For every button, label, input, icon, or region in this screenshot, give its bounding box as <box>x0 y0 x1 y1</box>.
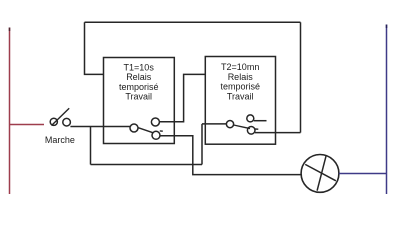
wire: top supply run <box>85 21 301 23</box>
svg-text:Relais: Relais <box>126 72 152 82</box>
wire: bottom run to T2 feed <box>91 164 203 166</box>
switch S1 blade <box>52 108 70 125</box>
lamp E1 cross stroke 1 <box>305 164 336 180</box>
wire: T2 NC stub <box>254 120 267 122</box>
wire: drop to relay T1 coil <box>85 22 104 74</box>
contact T1 blade tip <box>160 130 163 132</box>
wire: T1 NC to relay T2 coil <box>159 74 205 121</box>
lamp E1 body <box>301 155 339 193</box>
wire: neutral tip <box>386 25 388 29</box>
relay box T2 <box>205 57 275 145</box>
svg-text:Travail: Travail <box>227 91 254 101</box>
lamp E1 cross stroke 2 <box>317 155 326 191</box>
wire: feed contact T2 <box>202 123 226 125</box>
wire: up to contact T2 <box>201 124 203 165</box>
svg-text:Travail: Travail <box>125 92 152 102</box>
svg-text:Marche: Marche <box>45 135 75 145</box>
switch S1 "Marche" terminal right <box>63 118 71 126</box>
wire: drop to contact T2 common <box>300 22 302 132</box>
wire: phase L (red) vertical <box>9 28 11 195</box>
contact T1 blade <box>138 128 153 133</box>
contact T1 common terminal <box>130 124 138 132</box>
svg-text:Relais: Relais <box>228 72 254 82</box>
wire: neutral N (blue) vertical <box>386 25 388 195</box>
wire: lamp to neutral (blue) <box>339 173 387 175</box>
contact T2 common terminal <box>226 121 233 128</box>
wire: branch down at node <box>90 127 92 165</box>
switch S1 "Marche" terminal left <box>50 118 57 125</box>
wire: phase tip <box>9 28 11 32</box>
svg-text:T1=10s: T1=10s <box>124 63 155 73</box>
contact T1 NO terminal <box>152 131 160 139</box>
wire: switch to contact T1 <box>70 126 130 128</box>
svg-text:temporisé: temporisé <box>119 82 159 92</box>
wire: T1 NO to lamp <box>160 136 301 175</box>
svg-text:temporisé: temporisé <box>220 82 260 92</box>
contact T1 NC terminal <box>151 118 159 126</box>
wire: T2 NO to supply drop <box>255 132 301 134</box>
contact T2 blade tip <box>255 128 258 130</box>
contact T2 NO terminal <box>247 127 255 135</box>
contact T2 blade <box>234 125 250 129</box>
svg-text:T2=10mn: T2=10mn <box>221 62 259 72</box>
wire: phase to switch (red) <box>10 124 45 126</box>
relay box T1 <box>104 58 175 144</box>
contact T2 NC terminal <box>247 115 254 122</box>
